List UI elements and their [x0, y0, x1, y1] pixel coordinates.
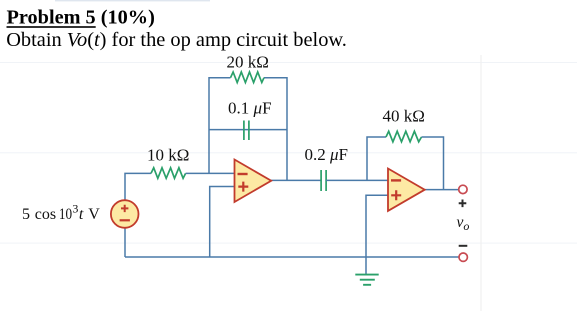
resistor R2 40 kOhm zigzag	[386, 131, 422, 142]
resistor R1 10 kOhm zigzag	[151, 168, 186, 179]
wire: bottom rail	[125, 256, 459, 258]
resistor R_f 20 kOhm zigzag	[231, 72, 265, 83]
wire: 40k feedback top right segment and right vertical	[422, 137, 444, 190]
svg-text:0.1 μF: 0.1 μF	[228, 98, 272, 117]
wire: feedback box right vertical	[286, 77, 288, 180]
wire: top feedback left segment	[209, 77, 231, 79]
op-amp U2	[388, 169, 425, 211]
wire: op-amp1 noninverting input to ground rail	[210, 187, 235, 258]
svg-text:20 kΩ: 20 kΩ	[227, 52, 269, 71]
output plus sign	[459, 200, 467, 208]
output terminal top	[459, 185, 467, 193]
svg-text:0.2 μF: 0.2 μF	[304, 145, 348, 164]
svg-text:Obtain Vo(t) for the op amp ci: Obtain Vo(t) for the op amp circuit belo…	[6, 29, 347, 51]
wire: capacitor branch	[209, 129, 287, 131]
svg-text:vo: vo	[457, 214, 470, 233]
svg-text:Problem 5 (10%): Problem 5 (10%)	[7, 6, 155, 28]
ground symbol	[355, 275, 378, 285]
faint scan line 3	[0, 243, 577, 244]
wire: source to 10k resistor	[125, 173, 151, 200]
wire: feedback box left vertical	[208, 77, 210, 173]
wire: 10k to op-amp inverting input	[186, 172, 235, 174]
wire: op-amp2 noninverting input down to ground node	[366, 195, 388, 274]
voltage source VS 5cos(10^3 t) V	[111, 200, 139, 228]
wire: source bottom to bottom rail	[124, 228, 126, 257]
output minus sign	[459, 245, 468, 247]
faint page boundary vertical line	[480, 55, 481, 311]
svg-text:10 kΩ: 10 kΩ	[147, 145, 189, 164]
capacitor C1 0.1 uF plates	[244, 121, 249, 141]
faint page artifact line top	[55, 0, 210, 1]
svg-text:5cos103tV: 5cos103tV	[22, 202, 100, 223]
output terminal bottom	[459, 253, 467, 261]
op-amp U1	[235, 160, 272, 203]
title underline	[7, 26, 96, 28]
svg-text:40 kΩ: 40 kΩ	[383, 107, 425, 126]
wire: top feedback right segment	[264, 77, 287, 79]
capacitor C2 0.2 uF plates	[321, 170, 326, 191]
wire: op-amp1 output to capacitor C2	[271, 179, 321, 181]
wire: 40k feedback left vertical and top left segment	[367, 137, 386, 180]
wire: capacitor C2 to op-amp2 inverting input	[326, 179, 388, 181]
faint scan line 2	[0, 152, 577, 153]
wire: op-amp2 output to terminal	[425, 189, 459, 191]
faint scan line 1	[0, 62, 577, 63]
